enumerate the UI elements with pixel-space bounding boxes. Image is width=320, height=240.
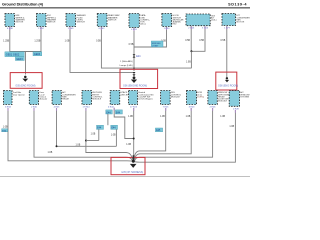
branch from L4 junction to splice box C [86, 140, 99, 142]
connector E40 (L2) [29, 91, 47, 105]
connector E77 (box 8) [222, 14, 250, 26]
svg-text:Door Opener: Door Opener [13, 93, 25, 96]
svg-text:E44: E44 [111, 128, 116, 130]
inline connector on centre wire [133, 54, 136, 57]
connector E44 (L5) [110, 91, 133, 105]
svg-text:(2.0L): (2.0L) [211, 20, 217, 22]
svg-text:0.5B: 0.5B [221, 40, 226, 42]
svg-text:1.0B: 1.0B [111, 134, 116, 136]
svg-text:SYSTEM: SYSTEM [240, 96, 249, 98]
connector G03 (box 7, wide) [186, 14, 217, 26]
connector E30 (box 6) [162, 14, 184, 27]
svg-text:0.5B: 0.5B [185, 40, 190, 42]
connector E44 (box 3) [66, 14, 86, 27]
connector E26 (R2) [208, 91, 231, 105]
svg-text:4 E44: 4 E44 [108, 107, 114, 109]
svg-text:(DLC): (DLC) [140, 24, 146, 26]
connector E25 (M2) [161, 91, 182, 105]
splice label box GE01 [5, 52, 24, 57]
red highlight box [111, 157, 145, 174]
svg-text:GE03: GE03 [16, 58, 23, 61]
splice label box (second row) [15, 57, 24, 61]
red highlight box [120, 69, 158, 88]
svg-text:1.25B: 1.25B [34, 41, 40, 43]
wire continues down to shared bus [190, 51, 192, 68]
splice label box on L1 wire [2, 129, 8, 133]
splice box A [106, 110, 113, 114]
svg-text:GE04: GE04 [34, 53, 41, 56]
svg-text:0.5B: 0.5B [199, 40, 204, 42]
svg-text:MOTOR: MOTOR [16, 22, 24, 24]
svg-text:1.0B: 1.0B [220, 116, 225, 118]
svg-text:G06 (ENGINE ROOM): G06 (ENGINE ROOM) [123, 84, 147, 87]
splice label box E93 [151, 41, 163, 47]
svg-text:1.0B: 1.0B [186, 62, 191, 64]
wire from M2 down then left [134, 108, 166, 159]
wire from splice D down to bus [115, 129, 117, 146]
centre wire [133, 28, 135, 71]
svg-text:Actuator: Actuator [40, 98, 48, 101]
svg-text:0.5B: 0.5B [129, 44, 134, 46]
wire from box8 straight to ground G08 [226, 26, 228, 77]
svg-text:MODULE: MODULE [92, 99, 102, 101]
svg-text:G05 (I/P HARNESS): G05 (I/P HARNESS) [121, 171, 143, 174]
wire from R2 down then left [135, 108, 213, 161]
svg-text:1.0B: 1.0B [128, 116, 133, 118]
svg-text:E44: E44 [97, 128, 102, 130]
svg-text:MODULE: MODULE [218, 101, 228, 103]
svg-text:E24: E24 [136, 55, 141, 58]
svg-text:SD139-4: SD139-4 [228, 3, 247, 7]
wire from L2 [34, 108, 132, 161]
wire from box7 pin5, joins pin2 wire [191, 26, 205, 51]
svg-text:SWITCH: SWITCH [108, 19, 117, 21]
junction dot [85, 140, 87, 142]
splice box D [111, 125, 118, 129]
header rule [0, 7, 250, 8]
wire from R3 down then left [134, 110, 235, 162]
splice label box on M2 wire [155, 128, 162, 132]
splice label box right [33, 52, 42, 56]
ground symbol G06 [131, 72, 137, 83]
svg-text:1.0B: 1.0B [126, 144, 131, 146]
junction dot [190, 50, 192, 52]
footer rule [0, 175, 250, 178]
svg-text:1 E77: 1 E77 [224, 28, 230, 30]
svg-text:G08 (ENG ROOM): G08 (ENG ROOM) [218, 85, 238, 88]
connector E43 (box 4) [97, 14, 120, 27]
svg-text:SWITCH: SWITCH [77, 22, 86, 24]
wire from box1 [9, 27, 11, 52]
connector E23 (R1) [187, 91, 205, 105]
svg-text:1.0B: 1.0B [186, 116, 191, 118]
ground symbol G05 [22, 76, 28, 82]
svg-text:E25: E25 [156, 130, 161, 132]
connector E45 (L3) [52, 91, 76, 105]
wire from L4 [86, 108, 133, 159]
connector E38 (box 1) [5, 14, 25, 27]
svg-text:1.0B: 1.0B [3, 126, 8, 128]
junction dot [133, 138, 135, 140]
svg-text:RELAY: RELAY [62, 98, 69, 101]
wire from L3 with junction [57, 108, 117, 146]
red highlight box [10, 73, 42, 89]
connector E34 (L1) [4, 91, 26, 105]
svg-text:1.25B: 1.25B [3, 41, 9, 43]
ground symbol G08 [225, 77, 229, 82]
splice box B [115, 110, 122, 114]
connector E28 (R3) [229, 91, 249, 107]
wire from box3 down then right [70, 27, 133, 73]
svg-text:1.0B: 1.0B [229, 126, 234, 128]
connector E52 (box 2) [37, 14, 57, 27]
horizontal wire joining box1+box2 [10, 51, 41, 53]
purple connector pin ticks [8, 26, 235, 113]
svg-text:JOINT: JOINT [152, 45, 159, 47]
svg-text:E44: E44 [106, 112, 111, 114]
wire left branch down [107, 114, 109, 125]
svg-text:G05 (ENG ROOM): G05 (ENG ROOM) [15, 85, 35, 88]
svg-text:0.5B: 0.5B [96, 41, 101, 43]
svg-text:GE01 GE02: GE01 GE02 [6, 54, 20, 57]
junction dot [56, 145, 58, 147]
svg-text:SWITCH: SWITCH [47, 22, 56, 24]
connector E31 (box 5, centre) [129, 14, 150, 28]
wire from splice C down to L4 branch [98, 129, 100, 140]
svg-text:E44: E44 [116, 112, 121, 114]
wire from box2 [40, 27, 42, 52]
svg-text:MOTOR: MOTOR [237, 22, 245, 24]
connector E24 (M1) [129, 91, 154, 105]
svg-text:1.0B: 1.0B [160, 116, 165, 118]
svg-text:1.0B: 1.0B [48, 152, 53, 154]
svg-text:1.0B: 1.0B [91, 134, 96, 136]
wire from box4 down then right, shared bus to G03 [101, 27, 191, 68]
svg-text:MODULE: MODULE [171, 96, 181, 98]
wire from box7 pin2 [190, 26, 192, 51]
svg-text:DOHC): DOHC) [197, 96, 204, 98]
svg-text:1 E09: 1 E09 [68, 28, 74, 30]
wire from L5 down between splices, right, down to centre [114, 108, 134, 139]
svg-text:Lamps (LHD): Lamps (LHD) [120, 65, 133, 67]
svg-text:Ground Distribution (4): Ground Distribution (4) [2, 2, 44, 7]
wire from L1 [8, 108, 132, 161]
wire from box6 down then left to centre [134, 27, 167, 47]
junction dot centre bus [133, 67, 135, 69]
svg-text:1.0B: 1.0B [65, 41, 70, 43]
svg-text:1 (With ABS): 1 (With ABS) [120, 60, 133, 63]
svg-text:3 E23: 3 E23 [189, 106, 195, 108]
svg-text:1.0B: 1.0B [76, 145, 81, 147]
ground symbol G05 bottom [130, 155, 137, 168]
red highlight box [216, 72, 237, 90]
wire from splice bar to ground G05 [25, 52, 27, 75]
svg-text:(LOCK Wagon): (LOCK Wagon) [138, 99, 152, 101]
connector E44 (L4) [82, 91, 103, 105]
splice box C [97, 125, 104, 129]
wire from R1 down then left [135, 108, 192, 160]
svg-text:2 E28: 2 E28 [233, 108, 239, 110]
main centre wire to bottom ground [133, 108, 135, 161]
